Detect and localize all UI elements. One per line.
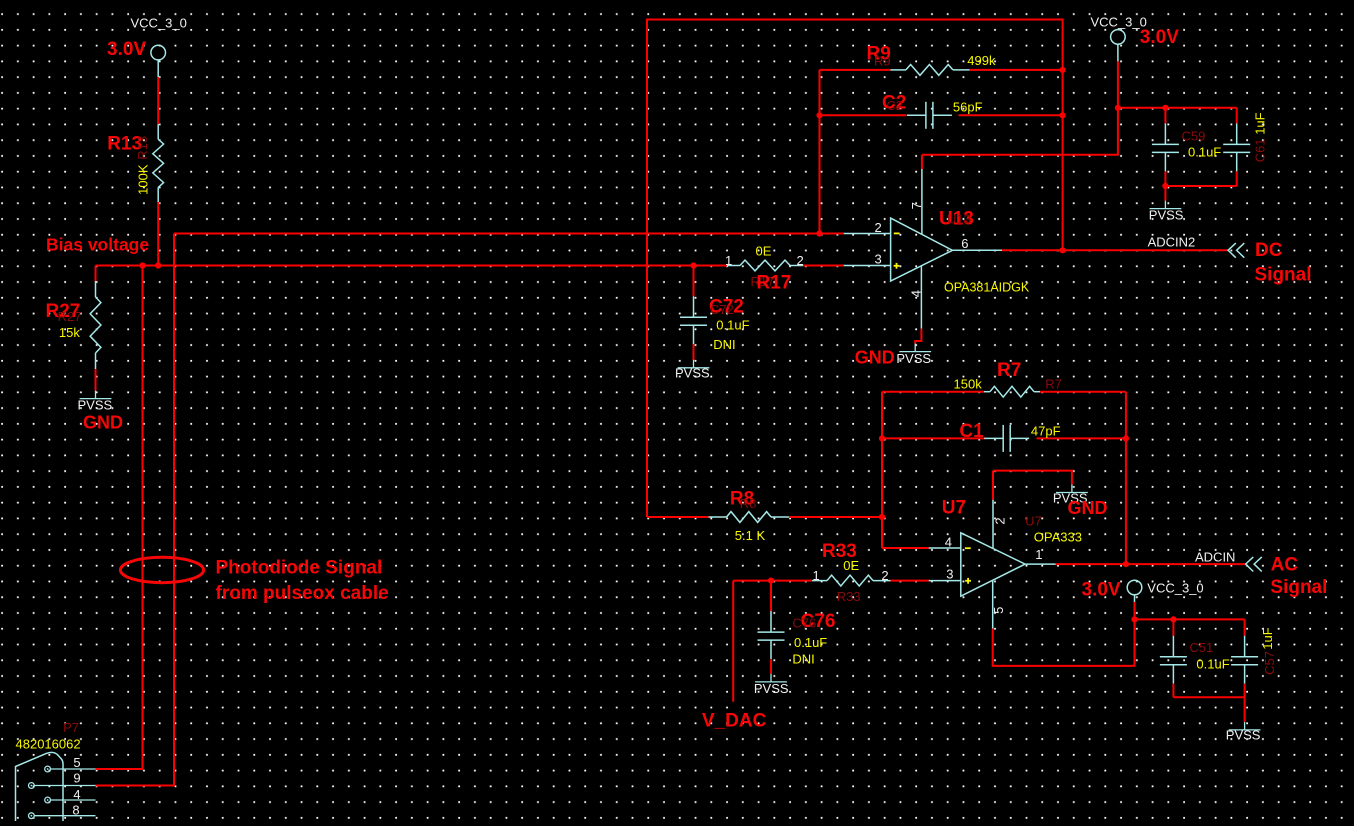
wire to U7 pin4 bbox=[882, 547, 929, 549]
wire VCC to U13 pin7 rail bbox=[922, 61, 1118, 154]
wire to C72 bbox=[693, 266, 695, 297]
junction C59 bottom bbox=[1162, 183, 1168, 189]
svg-text:7: 7 bbox=[909, 202, 924, 209]
wire to C61 bbox=[1236, 108, 1238, 124]
junction U7 output/feedback bbox=[1123, 561, 1129, 567]
op-amp U7 bbox=[961, 533, 1025, 596]
wire decoupling bottom rail 2 bbox=[1173, 696, 1244, 698]
wire VCC down bbox=[1134, 602, 1136, 619]
pin lead U13 pin4 bbox=[920, 266, 922, 329]
wire decoupling top rail bbox=[1118, 107, 1237, 109]
wire C2 to right vertical bbox=[959, 114, 1063, 116]
svg-text:C72: C72 bbox=[710, 302, 734, 317]
svg-text:C76: C76 bbox=[792, 616, 816, 631]
svg-text:0.1uF: 0.1uF bbox=[1196, 657, 1229, 672]
pin lead U13 pin3 bbox=[844, 265, 891, 267]
resistor R7 bbox=[984, 386, 1040, 397]
svg-text:P7: P7 bbox=[63, 720, 79, 735]
svg-text:4: 4 bbox=[908, 290, 923, 297]
svg-text:R33: R33 bbox=[822, 541, 857, 562]
svg-text:5: 5 bbox=[73, 755, 80, 770]
wire to C1 bbox=[882, 437, 986, 439]
svg-text:Bias voltage: Bias voltage bbox=[46, 235, 149, 255]
junction VCC/pin5 rail bbox=[1131, 616, 1137, 622]
wire U13 output loop to R8 bbox=[647, 20, 1063, 518]
svg-text:1: 1 bbox=[725, 253, 732, 268]
svg-text:PVSS: PVSS bbox=[896, 351, 931, 366]
connector P7 pin 8 bbox=[29, 813, 96, 819]
svg-text:DNI: DNI bbox=[713, 337, 735, 352]
wire V_DAC vertical bbox=[732, 581, 734, 702]
svg-text:0.1uF: 0.1uF bbox=[794, 635, 827, 650]
wire V_DAC to R33 bbox=[733, 580, 812, 582]
svg-text:482016062: 482016062 bbox=[16, 737, 81, 752]
pin lead U13 pin6 bbox=[953, 249, 1003, 251]
svg-text:C51: C51 bbox=[1189, 640, 1213, 655]
wire to C57 bbox=[1244, 619, 1246, 635]
wire U7 output / ADCIN bbox=[1056, 563, 1246, 565]
svg-text:2: 2 bbox=[881, 568, 888, 583]
wire C51 bottom bbox=[1172, 684, 1174, 698]
wire minus net horizontal bbox=[174, 233, 844, 235]
svg-text:6: 6 bbox=[961, 236, 968, 251]
wire loop to R8 bbox=[647, 516, 709, 518]
resistor R17 bbox=[727, 260, 803, 271]
U7 minus mark bbox=[965, 547, 971, 549]
svg-text:Signal: Signal bbox=[1255, 265, 1312, 286]
capacitor C61 bbox=[1223, 123, 1250, 171]
svg-text:9: 9 bbox=[73, 771, 80, 786]
svg-text:1uF: 1uF bbox=[1253, 112, 1268, 134]
ground PVSS (C72) bbox=[678, 360, 710, 368]
wire to C59 bbox=[1164, 108, 1166, 124]
svg-text:C59: C59 bbox=[1182, 128, 1206, 143]
svg-text:3: 3 bbox=[875, 252, 882, 267]
ground PVSS (C59) bbox=[1150, 201, 1182, 209]
wire rail to PVSS bbox=[1164, 186, 1166, 201]
resistor R13 bbox=[153, 124, 164, 202]
svg-text:C2: C2 bbox=[886, 98, 903, 113]
capacitor C59 bbox=[1152, 123, 1179, 171]
svg-text:3.0V: 3.0V bbox=[107, 39, 146, 60]
junction bias/C72 bbox=[690, 262, 696, 268]
svg-text:U7: U7 bbox=[1025, 514, 1042, 529]
wire VCC to U13 pin7 bbox=[921, 155, 923, 169]
svg-text:from pulseox cable: from pulseox cable bbox=[216, 583, 389, 604]
svg-text:5.1 K: 5.1 K bbox=[735, 528, 766, 543]
wire decoupling bottom rail bbox=[1165, 185, 1236, 187]
svg-text:VCC_3_0: VCC_3_0 bbox=[131, 16, 187, 31]
svg-text:C1: C1 bbox=[959, 421, 984, 442]
ground PVSS (C76) bbox=[755, 674, 787, 682]
pin lead U7 pin2 bbox=[992, 500, 994, 549]
svg-text:499k: 499k bbox=[967, 53, 996, 68]
svg-text:PVSS: PVSS bbox=[675, 366, 710, 381]
capacitor C57 bbox=[1231, 636, 1258, 684]
U13 plus mark bbox=[894, 263, 900, 269]
svg-text:PVSS: PVSS bbox=[78, 398, 113, 413]
svg-text:R17: R17 bbox=[757, 273, 792, 294]
wire C1 to right vertical bbox=[1037, 437, 1126, 439]
connector P7 pin 5 bbox=[45, 766, 96, 772]
svg-text:V_DAC: V_DAC bbox=[702, 711, 767, 732]
wire feedback vertical bbox=[819, 70, 821, 234]
svg-text:R33: R33 bbox=[837, 589, 861, 604]
svg-text:0.1uF: 0.1uF bbox=[716, 318, 749, 333]
svg-text:OPA333: OPA333 bbox=[1034, 530, 1082, 545]
wire R8 to U7 minus bbox=[789, 516, 882, 518]
wire R9 to right vertical bbox=[970, 69, 1063, 71]
svg-text:VCC_3_0: VCC_3_0 bbox=[1147, 581, 1203, 596]
svg-text:4: 4 bbox=[945, 534, 952, 549]
junction C51 top bbox=[1170, 616, 1176, 622]
power VCC_3_0 symbol (bottom-right) bbox=[1127, 580, 1142, 612]
svg-text:PVSS: PVSS bbox=[754, 681, 789, 696]
svg-text:OPA381AIDGK: OPA381AIDGK bbox=[944, 281, 1030, 295]
junction bias/R13 bbox=[155, 262, 161, 268]
pin lead U7 pin1 bbox=[1025, 563, 1056, 565]
svg-text:R13: R13 bbox=[135, 136, 150, 160]
svg-text:Photodiode Signal: Photodiode Signal bbox=[216, 558, 383, 579]
svg-text:8: 8 bbox=[72, 803, 79, 818]
net flag ADCIN2 bbox=[1228, 243, 1244, 258]
resistor R8 bbox=[709, 512, 790, 523]
pin lead U13 pin7 bbox=[921, 169, 923, 234]
ground PVSS (C57) bbox=[1229, 722, 1261, 730]
ground PVSS (R27) bbox=[80, 391, 112, 399]
svg-text:ADCIN: ADCIN bbox=[1195, 550, 1235, 565]
junction C76 bbox=[768, 578, 774, 584]
svg-text:PVSS: PVSS bbox=[1149, 208, 1184, 223]
net flag ADCIN bbox=[1246, 557, 1262, 572]
svg-text:ADCIN2: ADCIN2 bbox=[1148, 235, 1196, 250]
wire C61 bottom bbox=[1236, 171, 1238, 186]
wire bias node to P7 pin5 bbox=[96, 266, 143, 770]
junction bias/pin5 wire bbox=[139, 262, 145, 268]
svg-text:AC: AC bbox=[1271, 555, 1299, 576]
svg-text:2: 2 bbox=[797, 253, 804, 268]
junction C59 top bbox=[1162, 105, 1168, 111]
wire bias to R27 bbox=[95, 266, 97, 282]
svg-text:1uF: 1uF bbox=[1260, 627, 1275, 649]
svg-text:3.0V: 3.0V bbox=[1140, 27, 1179, 48]
wire minus net to P7 pin9 bbox=[96, 234, 175, 786]
wire C59 bottom bbox=[1164, 171, 1166, 186]
wire to C76 bbox=[770, 581, 772, 612]
svg-text:150k: 150k bbox=[954, 377, 983, 392]
resistor R27 bbox=[90, 281, 101, 369]
ground PVSS (U13 pin4) bbox=[899, 344, 931, 352]
svg-text:GND: GND bbox=[855, 348, 895, 368]
wire decoupling rail (bottom) bbox=[1135, 618, 1245, 620]
svg-text:2: 2 bbox=[993, 517, 1008, 524]
junction C1 left bbox=[879, 435, 885, 441]
svg-text:Signal: Signal bbox=[1270, 577, 1327, 598]
svg-text:R27: R27 bbox=[58, 309, 82, 324]
pin lead U7 pin5 bbox=[992, 580, 994, 628]
svg-text:U13: U13 bbox=[947, 212, 971, 227]
svg-text:C61: C61 bbox=[1253, 138, 1268, 162]
resistor R9 bbox=[890, 65, 969, 76]
op-amp U13 bbox=[891, 218, 953, 281]
wire R33 to U7 pin3 bbox=[891, 580, 929, 582]
svg-text:3: 3 bbox=[946, 567, 953, 582]
junction C2 left bbox=[816, 112, 822, 118]
wire U13 output / ADCIN2 bbox=[1002, 249, 1228, 251]
pin lead U7 pin4 bbox=[929, 547, 961, 549]
svg-text:3.0V: 3.0V bbox=[1082, 580, 1121, 601]
svg-text:0E: 0E bbox=[756, 244, 772, 259]
connector P7 pin 4 bbox=[45, 797, 96, 803]
wire R17 to U13 pin3 bbox=[803, 265, 844, 267]
svg-text:56pF: 56pF bbox=[953, 100, 983, 115]
connector P7 pin 9 bbox=[29, 783, 96, 789]
wire U13 pin4 to PVSS bbox=[915, 329, 921, 344]
svg-text:DC: DC bbox=[1255, 240, 1283, 261]
wire U7 feedback right vertical bbox=[1125, 392, 1127, 564]
annotation ellipse photodiode wires bbox=[120, 557, 203, 582]
junction VCC/decoupling rail bbox=[1115, 105, 1121, 111]
wire rail to PVSS (C57) bbox=[1244, 697, 1246, 722]
wire bias horizontal (to R17) bbox=[96, 265, 728, 267]
svg-text:0.1uF: 0.1uF bbox=[1188, 145, 1221, 160]
wire to R9 bbox=[820, 69, 891, 71]
U7 plus mark bbox=[965, 578, 971, 584]
power VCC_3_0 symbol (top-right) bbox=[1111, 30, 1126, 62]
svg-text:15k: 15k bbox=[59, 325, 80, 340]
svg-text:VCC_3_0: VCC_3_0 bbox=[1091, 15, 1147, 30]
svg-text:5: 5 bbox=[991, 607, 1006, 614]
svg-text:R7: R7 bbox=[997, 360, 1021, 381]
capacitor C2 bbox=[907, 102, 952, 129]
wire C76 to PVSS bbox=[770, 659, 772, 674]
svg-text:4: 4 bbox=[73, 787, 80, 802]
wire C72 to PVSS bbox=[693, 344, 695, 360]
capacitor C72 bbox=[680, 296, 707, 344]
svg-text:U7: U7 bbox=[942, 498, 966, 519]
svg-text:GND: GND bbox=[83, 412, 123, 432]
wire C57 bottom bbox=[1244, 684, 1246, 698]
svg-text:R8: R8 bbox=[740, 496, 757, 511]
svg-text:R7: R7 bbox=[1045, 376, 1062, 391]
wire PVSS branch (U7 pin2) bbox=[993, 471, 1072, 485]
svg-text:GND: GND bbox=[1068, 498, 1108, 518]
svg-text:100K: 100K bbox=[136, 164, 151, 195]
junction minus/feedback bbox=[816, 230, 822, 236]
junction output/loop bbox=[1060, 247, 1066, 253]
capacitor C51 bbox=[1160, 636, 1187, 684]
junction R9/right vertical bbox=[1060, 67, 1066, 73]
wire to R7 bbox=[882, 391, 984, 393]
svg-text:PVSS: PVSS bbox=[1226, 728, 1261, 743]
svg-text:1: 1 bbox=[1035, 547, 1042, 562]
resistor R33 bbox=[812, 575, 890, 586]
svg-text:47pF: 47pF bbox=[1031, 423, 1061, 438]
wire to C2 bbox=[820, 114, 907, 116]
wire U7 feedback left vertical bbox=[881, 392, 883, 548]
junction R8/feedback bbox=[879, 514, 885, 520]
connector P7 body bbox=[16, 752, 64, 821]
wire R7 to right vertical bbox=[1040, 391, 1126, 393]
svg-text:C57: C57 bbox=[1262, 651, 1277, 675]
pin lead U13 pin2 bbox=[844, 233, 891, 235]
wire U7 pin5 to VCC bbox=[993, 619, 1135, 666]
wire R13 to bias node bbox=[157, 202, 159, 266]
junction C1 right bbox=[1123, 435, 1129, 441]
junction C2/right vertical bbox=[1060, 112, 1066, 118]
wire U7 pin2 to PVSS bbox=[992, 471, 994, 500]
svg-text:1: 1 bbox=[813, 568, 820, 583]
wire to C51 bbox=[1172, 619, 1174, 635]
svg-text:DNI: DNI bbox=[792, 652, 814, 667]
pin lead U7 pin3 bbox=[929, 580, 961, 582]
svg-text:R9: R9 bbox=[874, 53, 891, 68]
wire R27 to PVSS bbox=[95, 369, 97, 391]
ground PVSS (U7 pin2) bbox=[1056, 485, 1088, 493]
power VCC_3_0 symbol (top-left) bbox=[151, 45, 166, 77]
svg-text:2: 2 bbox=[875, 220, 882, 235]
capacitor C76 bbox=[758, 611, 785, 659]
wire VCC to R13 bbox=[157, 77, 159, 124]
U13 minus mark bbox=[894, 232, 900, 234]
capacitor C1 bbox=[984, 425, 1029, 452]
